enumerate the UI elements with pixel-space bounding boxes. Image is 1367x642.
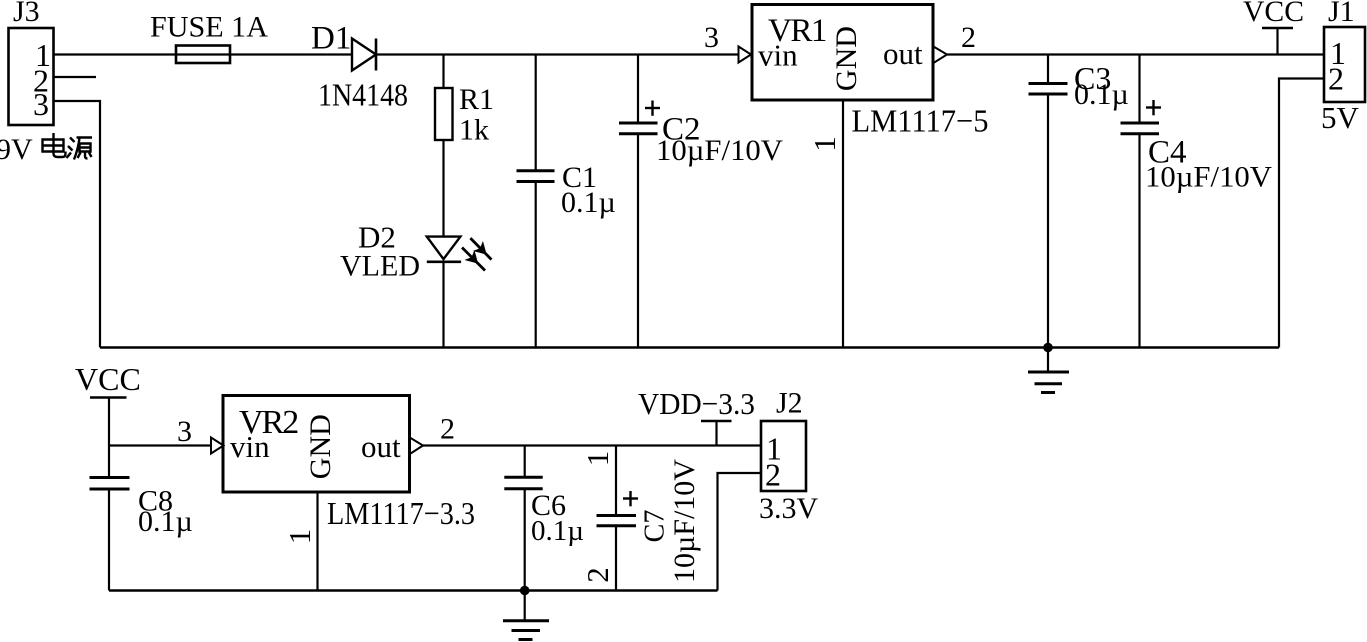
- svg-text:FUSE 1A: FUSE 1A: [150, 11, 268, 44]
- power VDD-3.3: [638, 386, 755, 446]
- junction node at C6/ground: [520, 586, 530, 596]
- power VCC (bottom circuit): [75, 361, 141, 478]
- svg-text:2: 2: [961, 21, 976, 54]
- connector J2 3.3V: [759, 387, 819, 526]
- resistor R1 1k: [435, 55, 494, 237]
- svg-text:3: 3: [33, 86, 49, 122]
- svg-text:2: 2: [580, 567, 615, 583]
- VR2 input arrow: [211, 438, 224, 454]
- svg-text:0.1µ: 0.1µ: [561, 186, 616, 219]
- svg-text:5V: 5V: [1321, 100, 1360, 135]
- svg-text:2: 2: [765, 457, 781, 493]
- svg-text:LM1117−3.3: LM1117−3.3: [327, 495, 475, 531]
- svg-text:9V: 9V: [0, 133, 33, 166]
- svg-text:VDD−3.3: VDD−3.3: [638, 386, 755, 421]
- svg-text:LM1117−5: LM1117−5: [852, 103, 989, 139]
- svg-text:D1: D1: [311, 21, 351, 57]
- capacitor C2 10uF/10V: [619, 55, 783, 348]
- svg-text:vin: vin: [230, 429, 270, 464]
- svg-text:1N4148: 1N4148: [318, 77, 408, 113]
- svg-text:10µF/10V: 10µF/10V: [1145, 161, 1272, 194]
- regulator VR1 LM1117-5: [752, 5, 989, 139]
- wire J1 pin2 to ground rail: [1279, 79, 1324, 348]
- capacitor C7 10uF/10V: [597, 446, 702, 591]
- svg-text:1: 1: [807, 136, 842, 152]
- svg-text:R1: R1: [459, 83, 494, 116]
- wire VCC to VR2 vin: [109, 444, 212, 446]
- svg-text:VCC: VCC: [75, 361, 141, 397]
- wire J3 pin2 stub: [54, 76, 97, 78]
- svg-text:J2: J2: [776, 387, 803, 420]
- ground symbol (bottom circuit): [503, 591, 549, 640]
- LED D2 VLED: [340, 220, 492, 283]
- VR1 GND pin 1: [842, 100, 844, 348]
- capacitor C8 0.1u: [90, 478, 193, 591]
- VR2 GND pin 1: [316, 492, 318, 591]
- capacitor C4 10uF/10V: [1121, 55, 1273, 348]
- connector J1 5V: [1321, 0, 1365, 135]
- svg-text:0.1µ: 0.1µ: [531, 515, 584, 547]
- svg-text:1k: 1k: [459, 114, 489, 147]
- svg-text:10µF/10V: 10µF/10V: [656, 134, 783, 167]
- svg-text:J1: J1: [1328, 0, 1355, 28]
- svg-text:10µF/10V: 10µF/10V: [668, 459, 701, 583]
- svg-text:0.1µ: 0.1µ: [1074, 78, 1129, 111]
- svg-text:3: 3: [704, 21, 719, 54]
- svg-text:1: 1: [580, 451, 615, 467]
- junction node at C3/ground: [1043, 343, 1053, 353]
- svg-text:3.3V: 3.3V: [759, 492, 819, 525]
- svg-text:GND: GND: [304, 414, 337, 479]
- wire J3 pin1 to fuse: [54, 53, 177, 55]
- svg-text:out: out: [361, 429, 401, 464]
- svg-text:GND: GND: [830, 26, 863, 91]
- VR1 output arrow pin 2: [934, 47, 948, 64]
- power VCC (top): [1243, 0, 1304, 55]
- ground rail (bottom circuit): [109, 589, 718, 591]
- wire D2 to ground rail: [442, 262, 444, 348]
- fuse F1 1A: [150, 11, 268, 64]
- svg-text:0.1µ: 0.1µ: [138, 505, 193, 538]
- VR2 output arrow pin 2: [410, 438, 423, 455]
- svg-text:out: out: [883, 36, 923, 71]
- wire VR1 out to J1: [947, 53, 1324, 55]
- wire fuse to D1: [230, 53, 352, 55]
- svg-text:C7: C7: [640, 510, 671, 543]
- svg-text:1: 1: [282, 529, 317, 545]
- wire VR2 out to J2: [423, 444, 761, 446]
- ground rail (top circuit): [100, 346, 1279, 348]
- svg-text:2: 2: [1328, 61, 1344, 97]
- svg-text:2: 2: [440, 413, 455, 446]
- svg-text:J3: J3: [13, 0, 40, 28]
- svg-text:VLED: VLED: [340, 250, 420, 283]
- wire J2 pin2 to ground rail: [718, 473, 762, 591]
- diode D1 1N4148: [311, 21, 408, 113]
- svg-text:VCC: VCC: [1243, 0, 1304, 28]
- connector J3: [9, 0, 54, 125]
- wire J3 pin3: [54, 101, 101, 348]
- wire D1 to VR1 vin (node with R1, C1, C2): [376, 53, 739, 55]
- VR1 input arrow: [739, 47, 752, 63]
- regulator VR2 LM1117-3.3: [223, 396, 475, 532]
- capacitor C1 0.1u: [517, 55, 616, 348]
- label 9V电源: [0, 133, 92, 166]
- ground symbol (top circuit): [1028, 348, 1069, 393]
- svg-text:vin: vin: [758, 38, 798, 73]
- capacitor C6 0.1u: [504, 446, 584, 591]
- capacitor C3 0.1u: [1029, 55, 1129, 348]
- svg-text:3: 3: [177, 415, 192, 448]
